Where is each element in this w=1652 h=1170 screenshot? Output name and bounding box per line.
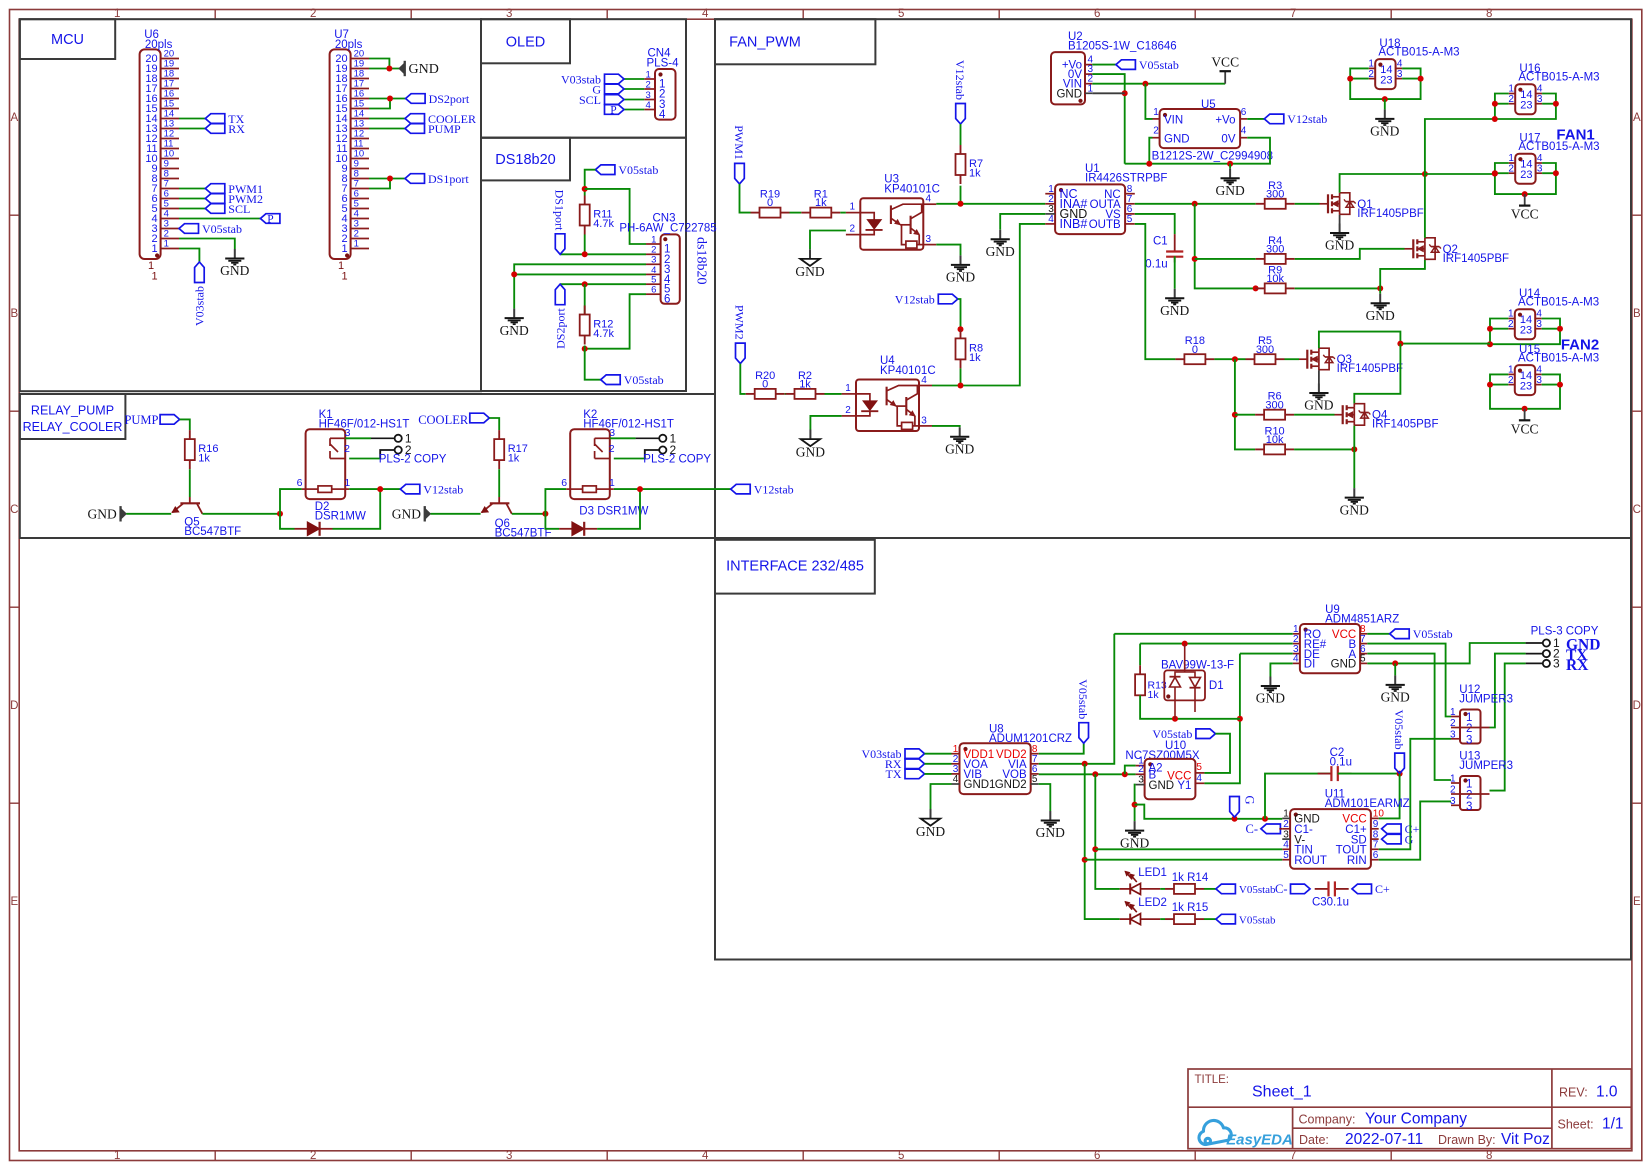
title block xyxy=(1188,1069,1631,1149)
wire PWM2 to R20 xyxy=(740,364,745,394)
svg-text:300: 300 xyxy=(1265,399,1283,411)
svg-text:1: 1 xyxy=(1153,107,1159,118)
wire R13 to bottom rail xyxy=(1140,695,1240,719)
wire U5 +Vo to V12stab xyxy=(1247,118,1264,120)
svg-text:5: 5 xyxy=(354,199,359,210)
svg-text:1: 1 xyxy=(164,239,169,250)
svg-text:G: G xyxy=(1405,832,1414,846)
power flag VCC at U17 xyxy=(1524,194,1526,206)
net flag DS1port xyxy=(555,234,565,255)
pin 13 of U6 xyxy=(161,128,179,130)
svg-text:7: 7 xyxy=(1373,840,1379,851)
svg-text:6: 6 xyxy=(1373,850,1379,861)
pin 4 of U18 xyxy=(1396,67,1403,69)
svg-text:GND: GND xyxy=(916,824,945,839)
svg-text:DSR1MW: DSR1MW xyxy=(315,511,366,523)
wire U2 +Vo to V05stab xyxy=(1092,64,1116,66)
wire R18 to R5 xyxy=(1214,358,1245,360)
pin 1 of U16 xyxy=(1509,93,1516,95)
svg-text:VCC: VCC xyxy=(1211,55,1239,70)
pin 6 of U7 xyxy=(351,198,369,200)
svg-text:DS1port: DS1port xyxy=(428,172,469,186)
net flag G xyxy=(1230,797,1240,818)
svg-text:1: 1 xyxy=(354,239,359,250)
wire U10 Y1 up to DE rail xyxy=(1204,654,1240,784)
svg-text:IRF1405PBF: IRF1405PBF xyxy=(1357,208,1423,220)
terminal 1 of PLS-2 xyxy=(395,435,402,442)
svg-text:Drawn By:: Drawn By: xyxy=(1438,1133,1496,1147)
svg-text:3: 3 xyxy=(609,427,615,439)
pin 3 of U12 xyxy=(1451,738,1460,740)
junction xyxy=(1227,161,1233,167)
terminal 2 of PLS-3 xyxy=(1543,650,1550,657)
ground at Q4 xyxy=(1353,488,1355,497)
wire R10 to Q4 source node xyxy=(1294,448,1354,450)
junction xyxy=(277,511,283,517)
wire CN4 pin 1 xyxy=(624,78,644,80)
svg-text:GND: GND xyxy=(945,442,974,457)
net flag C- at U11 C1- xyxy=(1261,824,1281,834)
pin 3 of U1 GND xyxy=(1045,213,1055,215)
pin 3 of U15 xyxy=(1535,384,1542,386)
pin 9 of U11 C1+ xyxy=(1371,828,1379,830)
svg-text:GND: GND xyxy=(946,270,975,285)
internal LED of U4 xyxy=(856,394,870,401)
wire ROUT row xyxy=(1085,859,1283,861)
svg-text:Company:: Company: xyxy=(1299,1113,1356,1127)
svg-text:4: 4 xyxy=(702,1150,709,1162)
svg-text:19: 19 xyxy=(164,59,175,70)
svg-text:1/1: 1/1 xyxy=(1602,1116,1624,1133)
svg-text:PWM2: PWM2 xyxy=(733,305,747,340)
wire R5 to Q3 gate xyxy=(1285,358,1300,360)
net flag SCL at U6 pin 5 xyxy=(179,208,205,210)
svg-text:23: 23 xyxy=(1380,75,1392,87)
wire VS to C1 xyxy=(1135,214,1175,234)
junction xyxy=(1253,285,1259,291)
pin 1 of U6 xyxy=(161,248,179,250)
wire U18 to GND xyxy=(1384,99,1386,109)
section box RELAY_PUMP RELAY_COOLER xyxy=(20,394,715,538)
pin 7 of U6 xyxy=(161,188,179,190)
wire RE# down through R13 xyxy=(1139,644,1141,666)
svg-text:BC547BTF: BC547BTF xyxy=(184,526,241,538)
wire U9 GND row to PLS-3 terminal 1 xyxy=(1367,643,1525,663)
ground DS18b20 xyxy=(513,309,515,318)
svg-text:23: 23 xyxy=(1520,325,1532,337)
pin 1 of U18 xyxy=(1369,67,1376,69)
svg-text:A: A xyxy=(1633,112,1641,124)
pin 11 of U6 xyxy=(161,148,179,150)
junction xyxy=(582,186,588,192)
pin 14 of U7 xyxy=(351,118,369,120)
wire TIN row xyxy=(1095,848,1282,850)
power flag VCC xyxy=(1224,71,1226,84)
pin 16 of U6 xyxy=(161,98,179,100)
ground at U5 rail xyxy=(1229,169,1231,178)
net flag V03stab at CN4 pin 1 xyxy=(605,74,625,84)
section box FAN_PWM xyxy=(715,19,1631,538)
svg-text:V12stab: V12stab xyxy=(895,292,935,306)
wire K1 pin3 to terminal 1 xyxy=(345,437,371,439)
net flag G at CN4 pin 2 xyxy=(605,84,625,94)
svg-text:Y1: Y1 xyxy=(1177,780,1191,792)
net flag P at CN4 pin 4 xyxy=(605,105,625,115)
svg-text:6: 6 xyxy=(1241,107,1247,118)
junction xyxy=(1492,101,1498,107)
net flag DS1port at U7 pin 8 xyxy=(405,174,425,184)
svg-text:ACTB015-A-M3: ACTB015-A-M3 xyxy=(1378,47,1459,59)
resistor R13 1k xyxy=(1139,665,1141,674)
net flag PWM1 at U6 pin 7 xyxy=(179,188,205,190)
wire VIN to U5 VIN xyxy=(1145,84,1152,119)
svg-text:9: 9 xyxy=(164,159,169,170)
net flag V05stab at R14 xyxy=(1216,884,1236,894)
svg-text:3: 3 xyxy=(1536,375,1542,386)
wire U2 GND joins 0V rail xyxy=(1092,92,1124,94)
pin 5 of U6 xyxy=(161,208,179,210)
junction xyxy=(958,326,964,332)
pin 1 of CN4 xyxy=(644,78,655,80)
svg-text:300: 300 xyxy=(1266,188,1284,200)
junction xyxy=(1146,161,1152,167)
pin 4 of U1 INB# xyxy=(1045,223,1055,225)
ground at Q3 source xyxy=(1318,384,1320,393)
svg-text:1k R14: 1k R14 xyxy=(1172,872,1209,884)
svg-text:V05stab: V05stab xyxy=(624,373,664,387)
svg-text:LED2: LED2 xyxy=(1138,897,1167,909)
svg-text:20: 20 xyxy=(145,53,157,65)
internal wiring of D1 xyxy=(1175,672,1195,677)
pin 4 of U3 xyxy=(923,203,936,205)
wire U6 pin 2 to GND xyxy=(179,239,235,250)
svg-text:4.7k: 4.7k xyxy=(593,218,614,230)
junction xyxy=(1132,802,1138,808)
svg-text:D: D xyxy=(1633,700,1641,712)
pin 2 of U12 xyxy=(1451,727,1460,729)
svg-text:V05stab: V05stab xyxy=(1239,884,1276,896)
resistor R7 1k xyxy=(960,145,962,154)
wire FAN1 rail up to U16 xyxy=(1425,119,1495,174)
pin 2 of CN4 xyxy=(644,88,655,90)
junction xyxy=(1082,761,1088,767)
svg-text:INB#: INB# xyxy=(1060,217,1088,231)
svg-text:Sheet:: Sheet: xyxy=(1558,1118,1594,1132)
svg-text:2: 2 xyxy=(646,79,651,90)
section box MCU xyxy=(20,19,481,391)
svg-text:2: 2 xyxy=(1508,375,1514,386)
svg-text:6: 6 xyxy=(651,285,656,296)
junction xyxy=(1237,716,1243,722)
wire R14 to V05stab xyxy=(1204,888,1216,890)
wire U7 pin 15 joins pin 16 xyxy=(369,99,390,109)
junction xyxy=(387,96,393,102)
wire U9 RE# row xyxy=(1140,643,1293,645)
svg-text:V05stab: V05stab xyxy=(1239,914,1276,926)
net flag V03stab at U8 pin1 xyxy=(905,749,925,759)
pin 8 of U11 SD xyxy=(1371,838,1379,840)
svg-text:0.1u: 0.1u xyxy=(1145,259,1167,271)
net flag V05stab at U8 VDD2 xyxy=(1079,723,1089,744)
resistor R17 1k xyxy=(498,430,500,439)
wire junction to CN3 pin 1 xyxy=(585,189,646,244)
svg-text:V05stab: V05stab xyxy=(1392,710,1406,750)
svg-text:ROUT: ROUT xyxy=(1294,855,1327,867)
junction xyxy=(582,281,588,287)
svg-text:D: D xyxy=(10,700,18,712)
net flag C+ at C3 xyxy=(1352,884,1372,894)
svg-text:1k: 1k xyxy=(969,352,981,364)
svg-text:VIN: VIN xyxy=(1164,115,1183,127)
svg-text:GND2: GND2 xyxy=(995,779,1027,791)
pin 2 of U10 B xyxy=(1136,773,1145,775)
resistor R12 4.7k xyxy=(584,306,586,315)
svg-text:0: 0 xyxy=(762,379,768,391)
net flag SCL at CN4 pin 3 xyxy=(605,95,625,105)
pin 3 of U11 V- xyxy=(1282,838,1290,840)
net flag V12stab above R8 xyxy=(938,294,958,304)
resistor R5 300 xyxy=(1246,358,1255,360)
wire U7 pin 19 to GND flag xyxy=(369,68,399,70)
wire PUMP to R16 xyxy=(180,419,190,430)
svg-text:15: 15 xyxy=(354,99,365,110)
ground at U3 pin 3 xyxy=(960,255,962,264)
svg-text:JUMPER3: JUMPER3 xyxy=(1459,694,1513,706)
wire Q6 collector to K2 xyxy=(512,513,546,515)
junction xyxy=(958,201,964,207)
pin 2 of CN3 xyxy=(646,253,661,255)
ground at U6 pin 2 xyxy=(234,249,236,258)
transistor Q5 BC547BTF xyxy=(189,497,191,503)
net flag V05stab top xyxy=(595,165,615,175)
svg-text:9: 9 xyxy=(354,159,359,170)
svg-text:1: 1 xyxy=(342,271,348,283)
svg-text:V12stab: V12stab xyxy=(423,482,463,496)
transistor Q1 IRF1405PBF xyxy=(1327,194,1329,213)
wire U8 VDD2 to V05stab xyxy=(1039,743,1084,754)
svg-text:2: 2 xyxy=(609,443,615,455)
net flag C+ at U11 C1+ xyxy=(1382,824,1402,834)
wire bracket of U18 xyxy=(1350,68,1420,99)
pin 15 of U7 xyxy=(351,108,369,110)
ground at U4 pin 2 xyxy=(809,430,811,440)
wire VCC node down to U11 pin10 xyxy=(1379,774,1400,819)
svg-text:2: 2 xyxy=(1508,94,1514,105)
svg-text:7: 7 xyxy=(1290,1150,1296,1162)
ground at U8 GND1 xyxy=(930,809,932,819)
svg-text:PLS-2 COPY: PLS-2 COPY xyxy=(379,454,447,466)
pin 4 of U6 xyxy=(161,218,179,220)
connector U7 20pls xyxy=(330,49,351,259)
junction xyxy=(637,486,643,492)
wire R15 to V05stab xyxy=(1204,918,1216,920)
svg-text:GND: GND xyxy=(1056,88,1082,100)
svg-text:4: 4 xyxy=(354,209,359,220)
svg-text:IRF1405PBF: IRF1405PBF xyxy=(1372,419,1438,431)
svg-text:6: 6 xyxy=(1094,1150,1100,1162)
svg-text:16: 16 xyxy=(354,89,365,100)
wire U4 pin 4 to INB# riser xyxy=(932,224,1045,386)
pin 2 of U17 xyxy=(1509,172,1516,174)
junction xyxy=(1557,382,1563,388)
junction xyxy=(1351,446,1357,452)
svg-text:2: 2 xyxy=(164,229,169,240)
pin 6 of U8 VOB xyxy=(1031,773,1039,775)
junction xyxy=(1142,81,1148,87)
svg-text:3: 3 xyxy=(354,219,359,230)
svg-text:GND: GND xyxy=(88,506,117,521)
wire CN3 pin 5 row xyxy=(560,283,646,285)
wire R19 to R1 xyxy=(790,212,802,214)
svg-text:BC547BTF: BC547BTF xyxy=(495,527,552,539)
svg-text:2: 2 xyxy=(1368,69,1374,80)
pin 1 of U5 VIN xyxy=(1153,118,1160,120)
wire K1 pin6 down to D2 xyxy=(280,489,302,529)
svg-text:INTERFACE 232/485: INTERFACE 232/485 xyxy=(726,559,864,575)
wire rail to GND xyxy=(1229,164,1231,169)
svg-text:1: 1 xyxy=(344,477,350,489)
wire R3 to Q1 gate xyxy=(1295,203,1320,205)
svg-text:ACTB015-A-M3: ACTB015-A-M3 xyxy=(1518,297,1599,309)
pin 6 of U1 VS xyxy=(1125,213,1135,215)
wire FAN2 branch to Q4 drain xyxy=(1354,344,1400,404)
svg-text:DS2port: DS2port xyxy=(553,308,567,349)
svg-text:1: 1 xyxy=(114,1150,120,1162)
svg-text:TITLE:: TITLE: xyxy=(1195,1074,1230,1086)
power flag VCC at U15 xyxy=(1524,409,1526,421)
section box OLED xyxy=(481,19,686,138)
ground at U9 DI xyxy=(1269,677,1271,686)
net flag COOLER at U7 pin 14 xyxy=(369,118,405,120)
svg-text:SCL: SCL xyxy=(579,93,601,107)
svg-text:6: 6 xyxy=(297,477,303,489)
wire K2 pin6 down to D3 xyxy=(545,489,566,529)
svg-text:2: 2 xyxy=(850,224,856,235)
svg-text:2: 2 xyxy=(310,1150,316,1162)
svg-text:OLED: OLED xyxy=(506,35,546,51)
wire K2 pin1 to V12stab xyxy=(614,488,731,490)
wire K2 pin3 to terminal 1 xyxy=(610,437,636,439)
pin 2 of U5 GND xyxy=(1153,137,1160,139)
resistor R10 10k xyxy=(1255,448,1264,450)
svg-text:GND: GND xyxy=(1325,238,1354,253)
ground flag at Q6 emitter xyxy=(426,509,431,518)
pin 2 of U16 xyxy=(1509,103,1516,105)
svg-text:MCU: MCU xyxy=(51,32,84,48)
pin 10 of U6 xyxy=(161,158,179,160)
svg-text:B1212S-2W_C2994908: B1212S-2W_C2994908 xyxy=(1152,151,1273,163)
ground at U1 GND xyxy=(999,230,1001,239)
svg-text:2: 2 xyxy=(344,443,350,455)
junction xyxy=(1397,771,1403,777)
pin 17 of U7 xyxy=(351,88,369,90)
svg-text:GND1: GND1 xyxy=(964,779,996,791)
wire U7 pin 8 to DS1port xyxy=(369,178,405,180)
junction xyxy=(1492,171,1498,177)
pin 9 of U6 xyxy=(161,168,179,170)
ground at U9 GND xyxy=(1394,675,1396,684)
pin 3 of CN3 xyxy=(646,263,661,265)
junction xyxy=(1172,716,1178,722)
svg-text:VCC: VCC xyxy=(1511,207,1539,222)
wire A2 tie xyxy=(1125,766,1136,775)
svg-text:C: C xyxy=(1633,504,1641,516)
pin 18 of U7 xyxy=(351,78,369,80)
svg-text:B: B xyxy=(1633,308,1641,320)
wire U9 B to U12 pin1 xyxy=(1367,644,1451,717)
svg-text:1: 1 xyxy=(1450,774,1456,785)
svg-text:3: 3 xyxy=(1537,94,1543,105)
svg-text:5: 5 xyxy=(1196,762,1202,773)
junction xyxy=(386,66,392,72)
junction xyxy=(1122,771,1128,777)
svg-text:SCL: SCL xyxy=(228,202,250,216)
resistor R3 300 xyxy=(1256,203,1265,205)
pin 4 of U17 xyxy=(1536,162,1543,164)
svg-text:6: 6 xyxy=(664,294,670,306)
svg-text:4: 4 xyxy=(921,375,927,386)
svg-text:10: 10 xyxy=(1373,809,1385,820)
pin 4 of U5 0V xyxy=(1240,137,1247,139)
junction xyxy=(1082,857,1088,863)
wire Q2 source path xyxy=(1380,260,1425,289)
wire U7 pin 16 to DS2port xyxy=(369,98,406,100)
terminal 1 of PLS-2 xyxy=(659,435,666,442)
wire CN3 pin 6 to R12 bottom xyxy=(585,294,646,349)
terminal 2 of PLS-2 xyxy=(395,446,402,453)
wire VIA branch down to ROUT and LED2 xyxy=(1085,764,1120,919)
pin 2 of U6 xyxy=(161,238,179,240)
wire U9 A to U13 pin1 xyxy=(1367,654,1451,780)
net flag TX at U6 pin 14 xyxy=(179,118,205,120)
svg-text:ds18b20: ds18b20 xyxy=(694,237,709,284)
svg-text:ACTB015-A-M3: ACTB015-A-M3 xyxy=(1518,353,1599,365)
svg-text:GND: GND xyxy=(220,263,249,278)
pin 5 of U11 ROUT xyxy=(1282,859,1290,861)
pin 3 of U4 xyxy=(919,425,932,427)
wire U11 RIN to U13 pin3 xyxy=(1379,801,1451,859)
svg-text:6: 6 xyxy=(164,189,169,200)
svg-text:2: 2 xyxy=(1466,723,1472,735)
pin 8 of U8 VDD2 xyxy=(1031,753,1039,755)
pin 2 of U13 xyxy=(1451,793,1460,795)
svg-text:2: 2 xyxy=(1466,790,1472,802)
svg-text:PWM1: PWM1 xyxy=(732,125,746,160)
pin 1 of U1 NC xyxy=(1045,193,1055,195)
svg-text:300: 300 xyxy=(1266,244,1284,256)
svg-text:GND: GND xyxy=(1120,835,1149,850)
junction xyxy=(1522,191,1528,197)
pin 1 of K2 xyxy=(610,488,614,490)
pin 6 of K2 xyxy=(566,488,570,490)
wire VOB branch down to TIN and LED1 xyxy=(1095,774,1119,889)
pin 15 of U6 xyxy=(161,108,179,110)
svg-text:3: 3 xyxy=(1450,729,1456,740)
wire R9 to Q2 source node xyxy=(1295,287,1381,289)
wire R2 to U4 pin 1 xyxy=(825,393,842,395)
svg-text:GND: GND xyxy=(795,264,824,279)
ground at U8 GND2 xyxy=(1049,811,1051,820)
net flag TX at U8 pin3 xyxy=(905,769,925,779)
pin 18 of U6 xyxy=(161,78,179,80)
wire FAN1 riser to Q2 drain xyxy=(1424,174,1426,238)
svg-text:1: 1 xyxy=(1450,707,1456,718)
svg-text:PH-6AW_C722785: PH-6AW_C722785 xyxy=(619,222,716,234)
wire bracket of U17 xyxy=(1495,163,1556,194)
ground flag GND at U7 pin 19 xyxy=(399,64,404,73)
EasyEDA logo xyxy=(1199,1120,1231,1144)
wire R4 row xyxy=(1195,258,1256,260)
